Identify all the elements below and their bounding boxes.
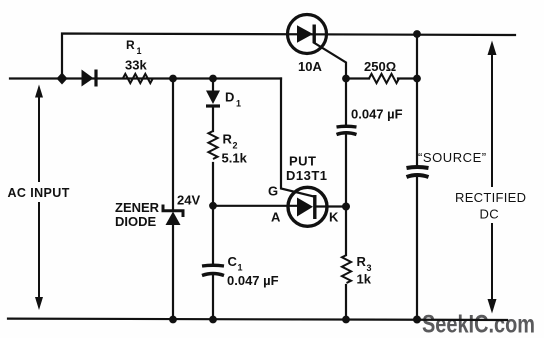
wire: 0.047uF cap to node K [345, 135, 347, 207]
svg-text:1k: 1k [357, 272, 372, 287]
zener diode VR1 24V [163, 205, 183, 226]
resistor R1 [123, 74, 153, 83]
diode CR1 on AC bus [82, 70, 97, 87]
svg-text:D13T1: D13T1 [286, 168, 328, 183]
svg-text:DC: DC [480, 207, 499, 222]
svg-text:DIODE: DIODE [115, 214, 157, 229]
node: C1 bottom [209, 316, 217, 324]
svg-text:PUT: PUT [289, 154, 317, 169]
wire: bottom bus [8, 319, 507, 320]
node: junction diamond at AC bus / riser [57, 73, 68, 85]
wire: D1/R2 branch [212, 79, 214, 132]
wire: R3 to bottom bus [345, 285, 347, 320]
svg-text:1: 1 [236, 99, 241, 109]
resistor R2 [208, 131, 217, 159]
node: R3 bottom [342, 316, 350, 324]
svg-text:24V: 24V [177, 193, 200, 208]
wire: 0.047uF cap top lead [345, 79, 347, 126]
wire: gate riser from AC bus to PUT gate [281, 79, 314, 197]
svg-text:R: R [223, 132, 233, 147]
svg-text:RECTIFIED: RECTIFIED [455, 190, 526, 205]
wire: C1 to bottom bus [212, 276, 214, 320]
svg-text:1: 1 [238, 263, 243, 273]
resistor 250 ohm [369, 74, 399, 83]
svg-text:“SOURCE”: “SOURCE” [418, 150, 487, 165]
node: D1 top [209, 75, 217, 83]
node: A [209, 202, 217, 210]
capacitor SOURCE [407, 167, 429, 177]
svg-text:0.047 µF: 0.047 µF [351, 107, 403, 122]
svg-text:1: 1 [137, 46, 142, 56]
wire: zener branch top [172, 79, 174, 210]
label R1 [125, 38, 147, 73]
node: AC INPUT measurement arrow [35, 85, 43, 311]
node: snubber top [342, 75, 350, 83]
svg-text:R: R [357, 254, 367, 269]
resistor R3 [342, 255, 351, 283]
wire: SOURCE branch lower [416, 177, 418, 320]
svg-text:0.047 µF: 0.047 µF [227, 273, 279, 288]
label D1 [225, 90, 241, 109]
node: K [342, 203, 350, 211]
node: source bottom [413, 316, 421, 324]
wire: anode line from node A to PUT [213, 205, 297, 207]
wire: node A to C1 [212, 206, 214, 265]
wire: zener branch bottom [172, 225, 174, 320]
svg-text:G: G [268, 184, 278, 199]
svg-text:10A: 10A [298, 59, 322, 74]
svg-text:D: D [225, 90, 234, 105]
capacitor 0.047uF (snubber) [337, 126, 357, 134]
node: source top bus [413, 30, 421, 38]
svg-text:C: C [228, 254, 238, 269]
node: zener top [169, 75, 177, 83]
svg-text:R: R [126, 38, 135, 52]
wire: PUT cathode to node K [316, 205, 346, 207]
label R3 [357, 254, 372, 287]
wire: 250ohm row right lead [398, 77, 417, 79]
capacitor C1 [202, 265, 224, 275]
node: source at 250 ohm [413, 75, 421, 83]
label PUT D13T1 [286, 154, 328, 184]
svg-text:ZENER: ZENER [115, 200, 160, 215]
wire: node K to R3 [345, 207, 347, 256]
label C1 [227, 254, 279, 288]
svg-text:5.1k: 5.1k [222, 151, 248, 166]
node: RECTIFIED DC measurement arrow [488, 41, 497, 314]
svg-text:33k: 33k [125, 58, 147, 73]
op: PUT Q1 D13T1 [288, 187, 327, 226]
wire: AC input bus [10, 77, 281, 79]
svg-text:AC INPUT: AC INPUT [8, 186, 70, 200]
svg-text:2: 2 [233, 141, 238, 151]
diode 10A in circle [288, 15, 327, 54]
label ZENER DIODE [115, 200, 160, 229]
diode D1 [206, 91, 220, 107]
wire: top bus with left riser [62, 34, 515, 79]
wire: diagonal from 10A diode to 0.047uF node [315, 43, 347, 79]
wire: SOURCE branch upper [416, 34, 418, 166]
label RECTIFIED DC [455, 190, 526, 222]
svg-text:250Ω: 250Ω [364, 59, 396, 74]
node: zener bottom [169, 316, 177, 324]
svg-text:SeekIC.com: SeekIC.com [422, 311, 535, 338]
svg-text:A: A [271, 210, 281, 225]
label R2 [222, 132, 248, 166]
svg-text:K: K [329, 210, 339, 225]
wire: R2 to node A [212, 163, 214, 206]
wire: 250ohm row left lead [346, 77, 369, 79]
